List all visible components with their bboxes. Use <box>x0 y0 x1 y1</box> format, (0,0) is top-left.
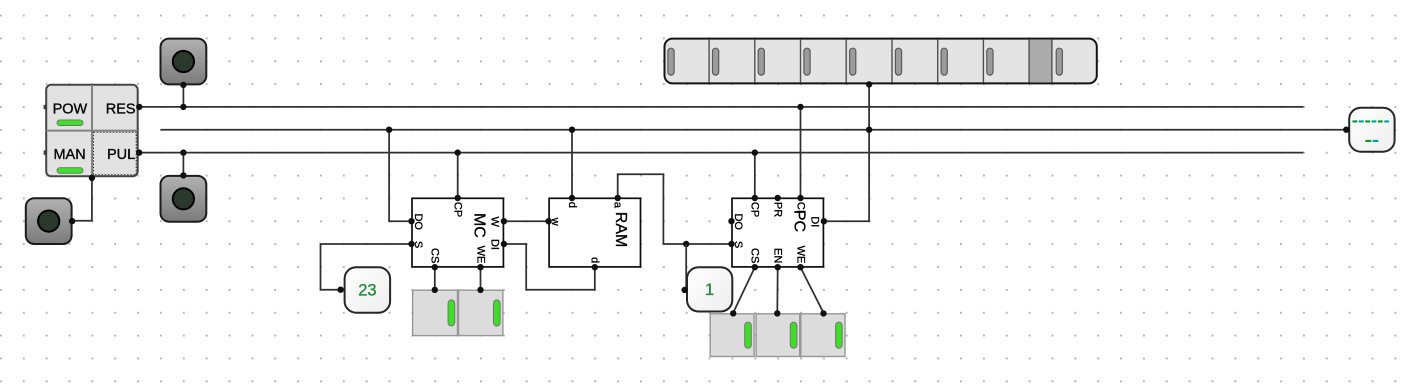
push button B3 <box>26 198 76 244</box>
wire net PUL to U3 pin CP <box>754 153 756 199</box>
junction U2 a / probe 1 <box>683 241 689 247</box>
chip U3 PC <box>728 195 827 271</box>
wire panel pin to button B3 <box>71 178 92 221</box>
svg-text:d: d <box>589 257 601 263</box>
svg-text:CI: CI <box>794 202 806 213</box>
svg-text:DI: DI <box>808 216 820 227</box>
push button B1 <box>161 39 207 89</box>
svg-text:S: S <box>412 241 424 248</box>
value probe 1 <box>681 267 732 311</box>
chip U1 MC <box>408 195 507 271</box>
svg-text:23: 23 <box>358 282 376 300</box>
wire U3 pin EN to switch S4 <box>776 267 778 312</box>
wire net PUL (bus line 3) <box>139 152 1303 154</box>
svg-text:W: W <box>488 217 500 228</box>
display probe D1 <box>1343 108 1394 152</box>
svg-text:MC: MC <box>471 213 488 238</box>
svg-text:CS: CS <box>749 248 761 263</box>
wire U1 pin W to U2 pin w <box>504 220 549 222</box>
slide switch S1 <box>413 287 458 336</box>
wire net CLK to U1 pin DO <box>389 130 412 222</box>
junction net CLK / U2 d <box>569 127 575 133</box>
DIP switch bank SW1 <box>665 39 1097 88</box>
wire U1 pin CS to switch S1 <box>434 267 436 289</box>
svg-text:d: d <box>566 202 578 208</box>
wire U1 pin S to probe 23 <box>321 244 412 290</box>
wire U1 pin DI to U2 pin d <box>504 244 595 290</box>
wire net RES (bus line 1) <box>139 106 1303 108</box>
slide switch S5 <box>801 310 845 356</box>
slide switch S2 <box>459 287 503 336</box>
svg-text:CP: CP <box>749 202 761 217</box>
slide switch S3 <box>710 310 754 356</box>
svg-text:w: w <box>549 217 561 226</box>
wire button B1 to net RES <box>182 85 184 107</box>
slide switch S4 <box>756 310 800 356</box>
svg-text:S: S <box>732 241 744 248</box>
switch panel POW/RES/MAN/PUL <box>44 85 143 181</box>
wire U2 pin a to U3 pin S <box>618 174 732 244</box>
value probe 23 <box>337 267 390 313</box>
wire U1 pin WE to switch S2 <box>480 267 482 289</box>
svg-text:DI: DI <box>488 239 500 250</box>
wire net PUL to button B2 <box>182 153 184 176</box>
svg-text:EN: EN <box>772 248 784 263</box>
junction net CLK / SW1 line <box>866 127 872 133</box>
wire net PUL to U1 pin CP <box>457 153 459 199</box>
svg-text:DO: DO <box>732 213 744 230</box>
junction net CLK / U1 DO <box>386 127 392 133</box>
wire net CLK (bus line 2) <box>161 129 1347 131</box>
junction net PUL / U3 CP <box>752 149 758 155</box>
svg-text:PUL: PUL <box>107 147 135 163</box>
svg-text:WE: WE <box>794 246 806 264</box>
junction net PUL / U1 CP <box>455 149 461 155</box>
wire U3 pin DI to DIP bank SW1 <box>824 85 869 221</box>
svg-text:DO: DO <box>412 213 424 230</box>
wire U3 pin CS to switch S3 <box>733 267 755 312</box>
wire net CLK to U2 pin d <box>571 130 573 199</box>
push button B2 <box>161 172 207 222</box>
chip U2 RAM <box>545 195 640 271</box>
junction net PUL / B2 <box>180 149 186 155</box>
svg-text:POW: POW <box>53 101 88 117</box>
wire net RES to U3 pin CI <box>800 107 802 199</box>
svg-text:WE: WE <box>474 246 486 264</box>
svg-text:PC: PC <box>791 210 808 232</box>
junction net RES / U3 CI <box>797 104 803 110</box>
svg-text:RAM: RAM <box>612 212 629 248</box>
wire U3 pin WE to switch S5 <box>801 267 824 312</box>
svg-text:RES: RES <box>106 101 136 117</box>
svg-text:MAN: MAN <box>53 147 85 163</box>
svg-text:CS: CS <box>429 248 441 263</box>
svg-text:CP: CP <box>452 202 464 217</box>
junction net RES / B1 <box>180 104 186 110</box>
wire junction to probe 1 <box>685 244 687 290</box>
svg-text:1: 1 <box>705 281 714 299</box>
svg-text:a: a <box>612 202 624 209</box>
svg-text:PR: PR <box>772 202 784 217</box>
